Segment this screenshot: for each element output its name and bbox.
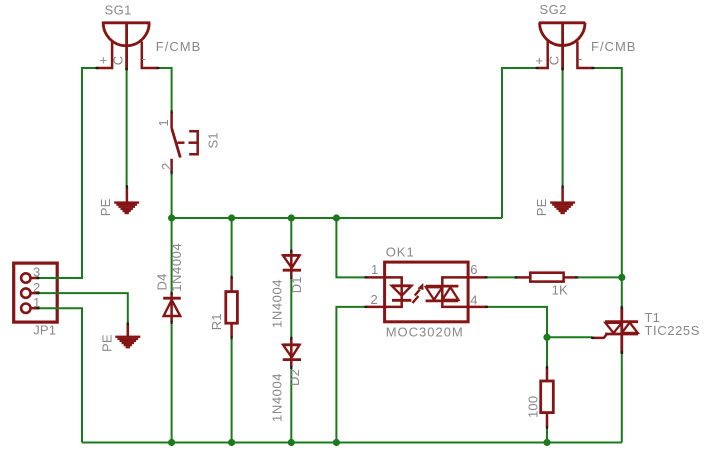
svg-text:6: 6 <box>470 262 477 277</box>
svg-text:S1: S1 <box>206 132 221 148</box>
node top bus R1 <box>228 214 235 221</box>
svg-text:PE: PE <box>98 198 113 216</box>
node bottom bus R1 <box>228 439 235 446</box>
svg-text:F/CMB: F/CMB <box>591 39 636 54</box>
svg-text:TIC225S: TIC225S <box>645 323 701 338</box>
svg-text:2: 2 <box>159 163 174 170</box>
wire OK1 pin2 down <box>336 307 366 443</box>
resistor 1K <box>515 273 577 282</box>
svg-text:4: 4 <box>470 292 477 307</box>
wire T1 bottom to bus <box>621 353 623 443</box>
ground PE JP1 <box>115 324 140 349</box>
svg-text:+: + <box>536 53 544 68</box>
svg-text:PE: PE <box>99 334 114 352</box>
svg-text:R1: R1 <box>209 313 224 330</box>
wire SG2 right leg down <box>592 68 622 307</box>
diode D1 <box>283 251 301 277</box>
svg-text:C: C <box>547 56 562 66</box>
connector JP1 <box>14 263 58 322</box>
svg-text:SG2: SG2 <box>540 2 567 17</box>
buzzer SG2 <box>537 23 593 70</box>
node bottom bus D4 <box>168 439 175 446</box>
wire D1 to D2 <box>290 276 292 338</box>
svg-text:1N4004: 1N4004 <box>270 279 285 328</box>
wire R100 to bus <box>546 427 548 443</box>
node bottom bus OK1 <box>333 439 340 446</box>
ground PE SG1 <box>114 187 139 215</box>
op-amp OK1 optocoupler <box>366 262 487 322</box>
diode D4 <box>163 293 181 322</box>
node junction dots <box>168 214 625 446</box>
wire JP1 pin1 down <box>38 308 82 442</box>
wire OK1 pin4 to gate node <box>487 307 547 337</box>
svg-text:JP1: JP1 <box>33 323 56 338</box>
wire D4 bottom <box>171 322 173 443</box>
wire SG2 left leg to bus <box>502 68 537 218</box>
wire OK1 pin6 to 1K <box>486 276 516 278</box>
svg-text:MOC3020M: MOC3020M <box>386 325 464 340</box>
wire SG1 middle to PE <box>126 70 128 187</box>
node bottom bus D2 <box>288 439 295 446</box>
wire D4 top <box>171 218 173 293</box>
svg-text:1: 1 <box>371 262 378 277</box>
wire SG1 right to S1 <box>157 68 172 112</box>
node 1K T1 <box>618 274 625 281</box>
wire OK1 pin1 feed <box>336 218 366 277</box>
svg-text:C: C <box>111 56 126 66</box>
svg-text:1N4004: 1N4004 <box>169 243 184 292</box>
svg-text:-: - <box>142 51 147 66</box>
pin end ticks <box>37 68 622 430</box>
ground PE SG2 <box>550 187 575 215</box>
buzzer SG1 <box>96 23 158 70</box>
node top bus D1 <box>288 214 295 221</box>
svg-text:+: + <box>100 53 108 68</box>
wire SG1 left leg <box>38 68 97 278</box>
resistor R1 <box>226 277 238 338</box>
svg-text:PE: PE <box>534 198 549 216</box>
diode D2 <box>283 338 301 367</box>
wire R1 bottom <box>231 337 233 443</box>
switch S1 <box>172 112 198 173</box>
node bottom bus R100 <box>543 439 550 446</box>
svg-text:D2: D2 <box>287 369 302 386</box>
wire JP1 pin2 to PE <box>38 293 128 323</box>
svg-text:SG1: SG1 <box>105 3 132 18</box>
wire 1K to node <box>576 276 622 278</box>
svg-text:1: 1 <box>156 119 171 126</box>
wire bus bottom <box>82 442 622 444</box>
svg-text:F/CMB: F/CMB <box>156 39 201 54</box>
svg-text:1N4004: 1N4004 <box>270 373 285 422</box>
wire D2 bottom <box>290 367 292 443</box>
wire SG2 middle to PE <box>562 70 564 187</box>
node gate R100 <box>543 334 550 341</box>
wire R1 top <box>231 218 233 277</box>
svg-text:D4: D4 <box>154 273 169 290</box>
wire bus top <box>172 217 502 219</box>
wire node to R100 <box>546 337 548 367</box>
node top bus S1 <box>168 214 175 221</box>
triac T1 <box>593 308 639 354</box>
node top bus OK1 <box>333 214 340 221</box>
wire S1 to bus <box>171 173 173 220</box>
wire D1 top <box>290 218 292 251</box>
svg-text:100: 100 <box>526 396 541 418</box>
svg-text:2: 2 <box>371 292 378 307</box>
svg-text:1K: 1K <box>552 283 568 298</box>
svg-text:OK1: OK1 <box>386 245 415 260</box>
svg-text:-: - <box>578 51 583 66</box>
resistor 100 <box>541 367 554 428</box>
wire gate node to T1 gate <box>547 336 593 338</box>
